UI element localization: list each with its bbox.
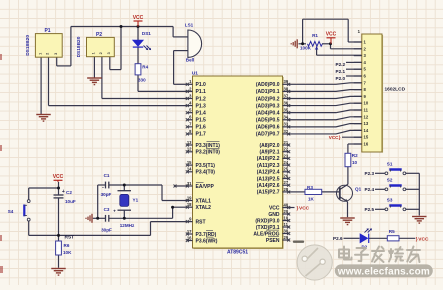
svg-text:LS1: LS1 <box>185 22 194 27</box>
svg-text:15: 15 <box>364 135 369 140</box>
svg-text:1602LCD: 1602LCD <box>385 87 406 93</box>
svg-text:AT89C51: AT89C51 <box>227 250 248 256</box>
svg-text:R4: R4 <box>142 64 148 69</box>
svg-text:RST: RST <box>65 235 75 241</box>
svg-text:22: 22 <box>284 147 289 152</box>
svg-text:VCC: VCC <box>299 205 310 211</box>
svg-text:21: 21 <box>284 140 289 145</box>
svg-text:P3.6(WR): P3.6(WR) <box>196 238 218 244</box>
svg-text:C1: C1 <box>104 173 110 178</box>
svg-text:Bell: Bell <box>186 58 194 63</box>
svg-text:20: 20 <box>284 209 289 214</box>
svg-text:P3.5(T1): P3.5(T1) <box>196 163 216 169</box>
svg-text:11: 11 <box>284 222 289 227</box>
svg-text:RST: RST <box>196 219 206 225</box>
svg-text:P1.4: P1.4 <box>196 110 207 116</box>
svg-text:(A10)P2.2: (A10)P2.2 <box>257 156 280 162</box>
svg-text:10K: 10K <box>63 250 72 255</box>
svg-text:P2.5: P2.5 <box>365 207 375 212</box>
svg-text:XTAL2: XTAL2 <box>196 205 212 211</box>
svg-text:11: 11 <box>364 108 369 113</box>
svg-text:(AD2)P0.2: (AD2)P0.2 <box>256 96 280 102</box>
svg-text:VCC: VCC <box>418 236 429 242</box>
svg-text:P1.0: P1.0 <box>196 82 207 88</box>
svg-text:14: 14 <box>187 167 192 172</box>
svg-text:1: 1 <box>92 52 96 54</box>
svg-text:P2.2: P2.2 <box>336 62 346 67</box>
svg-text:}: } <box>339 135 341 140</box>
svg-text:S4: S4 <box>8 209 14 214</box>
svg-text:C2: C2 <box>66 190 72 195</box>
svg-text:P2.6: P2.6 <box>333 236 343 241</box>
svg-text:15: 15 <box>187 160 192 165</box>
svg-text:2: 2 <box>99 52 103 54</box>
svg-text:PSEN: PSEN <box>266 238 280 244</box>
svg-text:10uF: 10uF <box>65 199 76 204</box>
svg-text:C3: C3 <box>104 207 110 212</box>
svg-text:P2.1: P2.1 <box>336 69 346 74</box>
svg-text:www.elecfans.com: www.elecfans.com <box>337 266 430 277</box>
svg-text:3: 3 <box>107 52 111 54</box>
svg-text:24: 24 <box>284 160 289 165</box>
svg-text:(AD5)P0.5: (AD5)P0.5 <box>256 118 280 124</box>
svg-text:30: 30 <box>284 228 289 233</box>
svg-text:P1.5: P1.5 <box>196 118 207 124</box>
svg-text:R1: R1 <box>312 33 318 38</box>
svg-text:(A15)P2.7: (A15)P2.7 <box>257 190 280 196</box>
svg-text:(A13)P2.5: (A13)P2.5 <box>257 176 280 182</box>
svg-text:1K: 1K <box>308 197 315 202</box>
svg-text:12: 12 <box>187 147 192 152</box>
svg-text:(A12)P2.4: (A12)P2.4 <box>257 170 280 176</box>
svg-text:P1.6: P1.6 <box>196 125 207 131</box>
svg-text:(AD6)P0.6: (AD6)P0.6 <box>256 125 280 131</box>
svg-text:30pF: 30pF <box>101 228 112 233</box>
svg-text:P2.4: P2.4 <box>365 187 375 192</box>
svg-text:R2: R2 <box>352 153 358 158</box>
svg-text:(AD0)P0.0: (AD0)P0.0 <box>256 82 280 88</box>
svg-text:10: 10 <box>364 101 369 106</box>
svg-text:16: 16 <box>364 142 369 147</box>
svg-text:P1.2: P1.2 <box>196 96 207 102</box>
svg-text:EA/VPP: EA/VPP <box>196 184 215 190</box>
svg-text:P1: P1 <box>44 28 50 34</box>
svg-text:27: 27 <box>284 180 289 185</box>
svg-text:P3.3(INT1): P3.3(INT1) <box>196 143 221 149</box>
svg-text:25: 25 <box>284 167 289 172</box>
svg-text:P3.4(T0): P3.4(T0) <box>196 170 216 176</box>
svg-text:35: 35 <box>284 108 289 113</box>
svg-text:14: 14 <box>364 128 369 133</box>
svg-text:P2.3: P2.3 <box>365 171 375 176</box>
svg-text:29: 29 <box>284 235 289 240</box>
svg-text:10: 10 <box>284 215 289 220</box>
svg-text:34: 34 <box>284 115 289 120</box>
svg-text:10: 10 <box>352 160 358 165</box>
svg-text:P1.7: P1.7 <box>196 132 207 138</box>
svg-text:S1: S1 <box>387 162 393 167</box>
svg-text:P2.0: P2.0 <box>336 76 346 81</box>
svg-text:(AD4)P0.4: (AD4)P0.4 <box>256 110 280 116</box>
svg-text:38: 38 <box>284 86 289 91</box>
svg-text:(AD3)P0.3: (AD3)P0.3 <box>256 103 280 109</box>
svg-text:330: 330 <box>138 77 146 82</box>
svg-text:2: 2 <box>46 53 50 55</box>
svg-text:23: 23 <box>284 153 289 158</box>
svg-text:VCC: VCC <box>326 32 337 38</box>
svg-text:30pF: 30pF <box>101 192 112 197</box>
svg-text:GND: GND <box>268 212 280 218</box>
svg-text:13: 13 <box>364 121 369 126</box>
svg-text:19: 19 <box>187 195 192 200</box>
svg-text:VCC: VCC <box>133 15 144 21</box>
svg-text:P1.1: P1.1 <box>196 89 207 95</box>
svg-text:40: 40 <box>284 202 289 207</box>
svg-text:33: 33 <box>284 122 289 127</box>
svg-text:P3.2(INT0): P3.2(INT0) <box>196 150 221 156</box>
svg-text:(A14)P2.6: (A14)P2.6 <box>257 183 280 189</box>
svg-text:VCC: VCC <box>329 135 339 140</box>
svg-text:P1.3: P1.3 <box>196 103 207 109</box>
svg-text:(AD7)P0.7: (AD7)P0.7 <box>256 132 280 138</box>
svg-text:32: 32 <box>284 129 289 134</box>
svg-text:3: 3 <box>54 53 58 55</box>
svg-text:13: 13 <box>187 140 192 145</box>
svg-text:P2: P2 <box>96 32 102 38</box>
svg-text:12MHz: 12MHz <box>120 223 135 228</box>
svg-text:16: 16 <box>187 235 192 240</box>
svg-text:39: 39 <box>284 79 289 84</box>
svg-text:+: + <box>62 189 65 195</box>
svg-text:37: 37 <box>284 93 289 98</box>
svg-text:DS18B20: DS18B20 <box>76 36 82 57</box>
svg-text:36: 36 <box>284 100 289 105</box>
svg-text:XTAL1: XTAL1 <box>196 198 212 204</box>
svg-text:VCC: VCC <box>269 205 280 211</box>
svg-text:U1: U1 <box>192 71 198 77</box>
svg-text:S3: S3 <box>387 198 393 203</box>
svg-text:(AD1)P0.1: (AD1)P0.1 <box>256 89 280 95</box>
svg-text:28: 28 <box>284 187 289 192</box>
svg-text:(RXD)P3.0: (RXD)P3.0 <box>255 218 279 224</box>
svg-text:VCC: VCC <box>53 174 64 180</box>
svg-text:17: 17 <box>187 229 192 234</box>
svg-text:Y1: Y1 <box>133 197 139 202</box>
svg-text:31: 31 <box>187 181 192 186</box>
svg-text:26: 26 <box>284 173 289 178</box>
svg-text:(A8)P2.0: (A8)P2.0 <box>259 143 279 149</box>
svg-text:18: 18 <box>187 202 192 207</box>
svg-text:R6: R6 <box>64 243 70 248</box>
svg-text:DS1: DS1 <box>142 31 151 36</box>
svg-text:1: 1 <box>38 53 42 55</box>
svg-text:R3: R3 <box>307 185 313 190</box>
svg-text:S2: S2 <box>387 178 393 183</box>
svg-text:DS18B20: DS18B20 <box>25 35 31 56</box>
svg-text:+: + <box>113 209 116 214</box>
svg-text:100K: 100K <box>300 45 312 50</box>
svg-text:Q1: Q1 <box>355 187 362 192</box>
svg-text:R5: R5 <box>389 229 395 234</box>
svg-text:(A11)P2.3: (A11)P2.3 <box>257 163 280 169</box>
svg-text:(A9)P2.1: (A9)P2.1 <box>259 150 279 156</box>
svg-text:12: 12 <box>364 114 369 119</box>
